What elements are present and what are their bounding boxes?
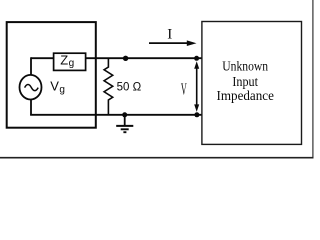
svg-text:g: g xyxy=(69,58,75,69)
current arrow I xyxy=(149,40,197,46)
node: junction dot bottom (ground) xyxy=(122,112,127,117)
svg-text:I: I xyxy=(167,27,172,43)
node: junction dot V-arrow bottom xyxy=(194,112,199,117)
wire: source bottom lead down xyxy=(30,99,32,115)
label: Unknown Input Impedance xyxy=(217,58,274,103)
voltage arrow V (double headed) xyxy=(194,61,199,112)
svg-text:Impedance: Impedance xyxy=(217,88,274,103)
svg-text:Unknown: Unknown xyxy=(222,58,268,73)
node: junction dot top (wire over resistor) xyxy=(123,56,128,61)
svg-text:Input: Input xyxy=(232,74,258,89)
source Vg circle with sine xyxy=(20,75,42,100)
svg-text:g: g xyxy=(59,85,65,96)
wire: generator top lead (vertical down to source top) xyxy=(30,57,32,75)
label Zg xyxy=(60,53,74,69)
frame: right edge line xyxy=(312,0,314,158)
wire: generator top lead (horizontal into Zg left) xyxy=(31,57,54,59)
label Vg xyxy=(50,78,65,95)
wire: top wire from Zg right to unknown box xyxy=(86,57,202,59)
node: junction dot V-arrow top xyxy=(194,56,199,61)
svg-text:Z: Z xyxy=(60,53,68,68)
wire: bottom wire to unknown box xyxy=(30,114,202,116)
resistor 50 ohm (zigzag) xyxy=(104,58,113,114)
frame: bottom edge line xyxy=(0,157,314,159)
svg-text:50 Ω: 50 Ω xyxy=(117,82,142,94)
svg-text:V: V xyxy=(50,78,59,93)
generator enclosure box xyxy=(7,22,96,128)
impedance Zg box xyxy=(54,53,86,70)
unknown input impedance box xyxy=(202,22,302,145)
svg-text:V: V xyxy=(181,80,187,99)
ground xyxy=(116,115,133,132)
